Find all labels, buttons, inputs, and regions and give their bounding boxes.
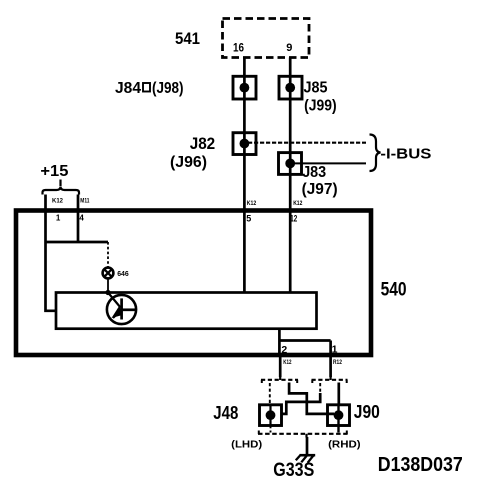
svg-text:J48: J48 bbox=[213, 403, 238, 423]
connector J85 bbox=[279, 76, 302, 99]
svg-text:+15: +15 bbox=[40, 163, 68, 180]
chassis ground symbol bbox=[296, 455, 315, 463]
wire pin 1 drop bbox=[329, 341, 332, 355]
brace } for I-BUS bbox=[370, 135, 381, 172]
ECU box 540 bbox=[16, 211, 371, 356]
svg-text:K12: K12 bbox=[52, 197, 63, 204]
internal block (driver stage) bbox=[56, 293, 317, 329]
wire pin 2 drop from block bbox=[278, 329, 281, 354]
svg-text:(J97): (J97) bbox=[302, 181, 338, 198]
svg-text:(J98): (J98) bbox=[152, 80, 184, 97]
wire pin 1 to right bracket (R12) bbox=[329, 357, 332, 377]
tick under +15 bbox=[59, 180, 61, 187]
svg-text:1: 1 bbox=[56, 213, 61, 222]
svg-text:5: 5 bbox=[246, 213, 251, 223]
wire down to lamp (dashed) bbox=[107, 242, 109, 267]
svg-text:16: 16 bbox=[233, 41, 244, 55]
svg-text:2: 2 bbox=[281, 344, 287, 356]
supply brace under +15 bbox=[43, 187, 80, 195]
I-BUS wire from J82 bbox=[248, 142, 366, 144]
connector J84 bbox=[233, 76, 256, 99]
I-BUS wire from J83 bbox=[294, 162, 366, 164]
connector J90 bbox=[328, 405, 350, 433]
right connector bracket (dashed) bbox=[312, 377, 348, 384]
svg-text:D138D037: D138D037 bbox=[378, 454, 463, 476]
output transistor bbox=[107, 293, 136, 325]
control unit 541 (dashed box) bbox=[223, 19, 310, 58]
svg-text:646: 646 bbox=[117, 271, 129, 278]
svg-text:(RHD): (RHD) bbox=[328, 439, 361, 451]
gather brace to ground (dashed) bbox=[258, 431, 348, 438]
svg-text:G33S: G33S bbox=[273, 459, 314, 481]
svg-text:9: 9 bbox=[286, 42, 292, 54]
wire pin 2 to left bracket (K12) bbox=[279, 357, 282, 377]
left connector bracket (dashed) bbox=[261, 377, 298, 384]
indicator lamp 646 bbox=[103, 268, 114, 279]
RHD crossover wire from left bracket to J90 bbox=[289, 383, 334, 414]
svg-text:J85: J85 bbox=[304, 79, 328, 96]
svg-text:J84: J84 bbox=[115, 80, 141, 97]
LHD wire to J90 bbox=[337, 383, 340, 406]
svg-text:(J96): (J96) bbox=[170, 154, 207, 171]
svg-text:J90: J90 bbox=[354, 401, 380, 422]
label square glyph bbox=[143, 83, 150, 92]
wire +15 left (K12) into pin 1 and down bbox=[46, 195, 58, 311]
connector J82 bbox=[233, 133, 256, 155]
svg-text:M11: M11 bbox=[80, 197, 89, 204]
internal junction rail pins 1/4 bbox=[46, 241, 109, 244]
wire lamp to block bbox=[107, 279, 109, 293]
svg-text:(LHD): (LHD) bbox=[231, 439, 262, 451]
svg-text:541: 541 bbox=[175, 30, 200, 48]
crossbar to pin 1 bbox=[279, 339, 330, 342]
svg-text:4: 4 bbox=[79, 213, 84, 222]
wire +15 right (M11) into pin 4 bbox=[77, 195, 80, 243]
svg-text:J82: J82 bbox=[190, 135, 216, 153]
svg-text:540: 540 bbox=[381, 279, 407, 300]
svg-text:R12: R12 bbox=[333, 359, 342, 366]
connector J48 bbox=[260, 405, 282, 433]
LHD wire to J48 (dashed) bbox=[269, 383, 271, 405]
connector J83 bbox=[279, 153, 302, 175]
svg-text:K12: K12 bbox=[283, 359, 292, 366]
svg-text:1: 1 bbox=[332, 343, 338, 355]
svg-text:J83: J83 bbox=[302, 164, 326, 181]
ground wire bbox=[306, 437, 309, 455]
junction node on block edge bbox=[105, 290, 110, 295]
RHD wire from right bracket (dashed drop) bbox=[319, 383, 321, 394]
wire: 541 pin 16 down through J84, J82 into 540 pin 5 bbox=[243, 58, 246, 293]
wire: 541 pin 9 down through J85, J83 into 540 pin 12 bbox=[289, 58, 292, 293]
svg-text:-I-BUS: -I-BUS bbox=[380, 146, 431, 163]
svg-text:K12: K12 bbox=[293, 200, 302, 207]
svg-text:(J99): (J99) bbox=[304, 98, 337, 115]
svg-text:K12: K12 bbox=[247, 200, 257, 207]
svg-text:12: 12 bbox=[290, 213, 297, 223]
crossover to J48 bbox=[282, 393, 321, 414]
